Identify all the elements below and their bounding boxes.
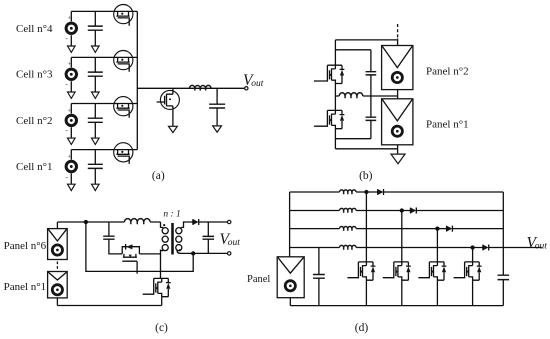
node dot rail2	[400, 208, 404, 212]
svg-text:Cell n°4: Cell n°4	[16, 23, 53, 35]
mosfet M1d with body diode	[347, 262, 375, 280]
wire output cap top lead d	[502, 248, 504, 276]
wire input cap top lead d	[318, 248, 320, 275]
clamp diode Dc	[126, 244, 132, 249]
cell PV1	[66, 161, 76, 171]
node dot rail4	[470, 245, 474, 249]
terminal out top c	[228, 220, 231, 223]
wire Cout leads	[216, 88, 218, 126]
mosfet M2d with body diode	[383, 262, 411, 280]
node dot input c	[84, 220, 88, 224]
svg-text:(d): (d)	[355, 322, 369, 334]
wire cap2b top lead	[370, 96, 372, 117]
wire cap3 leads	[94, 57, 96, 92]
ground cap1	[92, 184, 100, 190]
mosfet Q1	[114, 143, 133, 164]
svg-text:Vout: Vout	[243, 72, 264, 89]
mosfet Q5 shunt	[157, 88, 180, 126]
wire bottom rail c	[180, 252, 229, 254]
wire cap1b bottom lead	[370, 75, 372, 96]
svg-text:Cell n°1: Cell n°1	[16, 161, 52, 173]
wire input cap bottom lead d	[318, 278, 320, 305]
wire drain M1d	[365, 192, 367, 262]
panel bullseye d	[285, 281, 295, 291]
cell PV4	[66, 23, 76, 33]
wire row3	[71, 56, 137, 58]
wire primary top lead	[161, 222, 164, 228]
cell PV2	[66, 115, 76, 125]
wire cap2b link	[335, 138, 371, 140]
capacitor Cout	[209, 104, 225, 108]
inductor L2d	[340, 208, 357, 210]
cell PV3	[66, 69, 76, 79]
wire cell2 leads	[70, 104, 72, 139]
diode D3d	[447, 226, 453, 232]
panel 1 box	[48, 272, 68, 298]
capacitor C2b	[366, 117, 377, 120]
wire out cap top lead	[207, 222, 209, 236]
wire top rail c	[57, 221, 160, 223]
wire right rail d	[502, 192, 504, 248]
wire rail3 d	[290, 228, 504, 230]
ground cell1	[68, 184, 76, 190]
clamp mosfet arrow	[129, 255, 132, 258]
wire top rail b	[335, 39, 397, 41]
diode Dout c	[193, 219, 199, 225]
wire cap2b bottom lead	[370, 120, 372, 138]
wire row4	[71, 10, 137, 12]
wire left rail d	[289, 192, 291, 257]
ground b	[391, 154, 405, 164]
wire drain M3d	[436, 229, 438, 262]
wire cap1b top lead	[370, 50, 372, 72]
svg-text:-: -	[66, 35, 69, 43]
svg-text:Cell n°2: Cell n°2	[16, 115, 52, 127]
mosfet M4d with body diode	[454, 262, 482, 280]
svg-text:-: -	[66, 173, 69, 181]
panel 1 box	[382, 99, 413, 145]
wire cell4 leads	[70, 11, 72, 46]
node dot secondary return	[191, 251, 195, 255]
svg-text:Vout: Vout	[527, 234, 548, 251]
svg-text:(b): (b)	[359, 170, 373, 182]
dashed line panels c	[56, 262, 58, 271]
capacitor Cclamp	[103, 236, 114, 239]
wire rail4 d	[290, 247, 542, 249]
panel chevron d	[278, 257, 304, 273]
capacitor C1	[88, 164, 103, 168]
wire panel1 bottom lead	[56, 298, 58, 306]
capacitor Cout d	[498, 275, 510, 279]
svg-text:Panel n°1: Panel n°1	[426, 118, 469, 130]
wire secondary bottom lead	[177, 250, 180, 254]
ground cell4	[68, 46, 76, 52]
terminal Vout	[245, 87, 248, 90]
mosfet Q3	[114, 51, 133, 72]
wire panel1 bottom lead	[397, 145, 399, 154]
panel 2 chevron	[382, 46, 412, 68]
mosfet M2b with body diode	[316, 110, 344, 128]
secondary polarity dot	[179, 249, 181, 251]
clamp diode loop	[122, 247, 139, 254]
wire mid rail b	[334, 84, 336, 111]
panel 6 bullseye	[52, 245, 62, 255]
panel 6 box	[48, 229, 68, 260]
svg-text:-: -	[66, 81, 69, 89]
wire input return net	[86, 222, 193, 271]
terminal out bottom c	[228, 252, 231, 255]
wire row2	[71, 103, 137, 105]
primary polarity dot	[163, 224, 165, 226]
diode D4d	[483, 245, 489, 251]
inductor L1	[190, 85, 212, 88]
wire gate M1b extension	[314, 80, 317, 82]
ground cap4	[92, 46, 100, 52]
wire output cap bottom lead d	[502, 280, 504, 306]
wire source M3d	[436, 280, 438, 305]
wire source M4d	[472, 280, 474, 305]
wire clamp to primary	[139, 253, 160, 255]
wire cap4 leads	[94, 11, 96, 46]
clamp mosfet Mc	[122, 254, 137, 261]
panel box d	[277, 257, 304, 298]
wire clamp gate lead	[136, 261, 138, 274]
diode D1d	[378, 189, 384, 195]
panel 2 bullseye	[392, 72, 402, 82]
wire panel2 top lead	[397, 39, 399, 46]
wire out cap bottom lead	[207, 239, 209, 253]
svg-text:Panel n°6: Panel n°6	[4, 240, 47, 252]
panel 2 box	[382, 46, 413, 90]
mosfet M1b with body diode	[316, 65, 344, 83]
mosfet Q2	[114, 97, 133, 118]
clamp diode bar	[125, 244, 127, 250]
svg-text:(c): (c)	[155, 322, 168, 334]
inductor L4d	[340, 245, 357, 247]
capacitor C4	[88, 26, 103, 30]
svg-text:Panel: Panel	[247, 274, 270, 285]
transformer core	[171, 223, 174, 255]
wire main source lead	[161, 297, 163, 306]
svg-text:n : 1: n : 1	[163, 210, 180, 220]
wire panel bottom lead d	[289, 298, 291, 306]
capacitor Cin d	[313, 275, 325, 279]
node dot rail3	[435, 226, 439, 230]
wire panel junction b	[397, 90, 399, 99]
wire bus	[136, 11, 138, 149]
wire cell1 leads	[70, 150, 72, 185]
ground cap2	[92, 138, 100, 144]
panel 1 bullseye	[52, 285, 62, 295]
wire cell3 leads	[70, 57, 72, 92]
capacitor C3	[88, 72, 103, 76]
mosfet Mmain c with body diode	[143, 278, 171, 296]
wire diode to terminal	[199, 221, 230, 223]
svg-text:-: -	[66, 127, 69, 135]
wire drain M2d	[401, 211, 403, 262]
wire panel6 top lead	[56, 222, 58, 229]
mosfet Q4	[114, 4, 133, 25]
wire rail2 d	[290, 210, 504, 212]
wire cap1b tap	[335, 49, 371, 51]
wire left rail b upper	[334, 40, 336, 65]
diode D2d	[411, 208, 417, 214]
wire mid link b	[335, 95, 397, 97]
wire lower rail b	[334, 129, 336, 149]
inductor L1d	[340, 190, 357, 192]
transformer secondary coil	[176, 228, 182, 234]
capacitor C1b	[366, 72, 377, 75]
panel 1 bullseye	[392, 126, 402, 136]
ground Cout	[213, 126, 222, 132]
wire bottom return c	[57, 305, 161, 307]
wire output	[137, 87, 246, 89]
wire cap2 leads	[94, 104, 96, 139]
wire primary bottom lead	[161, 250, 164, 278]
wire gate M2b extension	[314, 125, 317, 127]
svg-text:Cell n°3: Cell n°3	[16, 68, 53, 80]
svg-text:Panel n°1: Panel n°1	[4, 281, 47, 293]
ground cell3	[68, 92, 76, 98]
dashed line top b	[397, 24, 399, 39]
capacitor Cout c	[203, 236, 215, 239]
inductor Lb	[339, 93, 363, 96]
ground Q5	[169, 126, 178, 132]
wire clamp cap bottom lead	[109, 239, 122, 254]
ground cell2	[68, 138, 76, 144]
wire bottom rail b	[335, 148, 397, 150]
inductor L3d	[340, 226, 357, 228]
mosfet M3d with body diode	[418, 262, 446, 280]
node dot rail1	[364, 190, 368, 194]
panel 1 chevron	[382, 99, 412, 121]
svg-text:Panel n°2: Panel n°2	[426, 66, 469, 78]
wire cap1 leads	[94, 150, 96, 185]
capacitor C2	[88, 118, 103, 122]
wire row1	[71, 149, 137, 151]
wire drain M4d	[472, 248, 474, 262]
wire source M1d	[365, 280, 367, 305]
transformer primary coil	[162, 228, 168, 234]
panel 1 chevron	[48, 272, 66, 280]
wire bottom rail d	[290, 305, 503, 307]
wire clamp cap top lead	[108, 222, 110, 236]
inductor Lc	[124, 219, 150, 222]
wire secondary top lead	[181, 222, 193, 228]
panel 6 chevron	[48, 229, 66, 241]
svg-text:(a): (a)	[152, 170, 165, 182]
wire source M2d	[401, 280, 403, 305]
svg-text:Vout: Vout	[220, 231, 241, 248]
wire rail1 d	[290, 191, 504, 193]
ground cap3	[92, 92, 100, 98]
